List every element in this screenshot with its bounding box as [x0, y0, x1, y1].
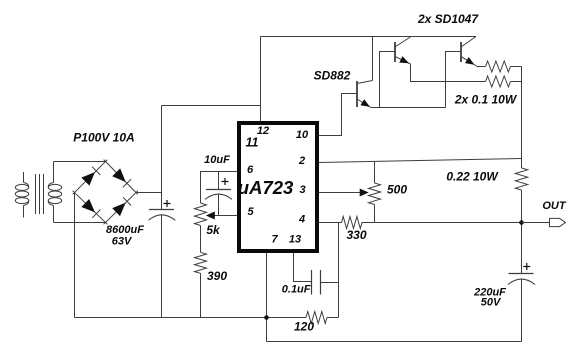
wire 330 to OUT node — [362, 222, 522, 224]
ground rail — [75, 317, 339, 319]
svg-text:50V: 50V — [481, 297, 502, 309]
transformer core — [36, 174, 44, 214]
resistor 390 — [195, 252, 207, 273]
junction dot — [264, 315, 269, 320]
diode D3 (left to bottom) — [81, 199, 95, 212]
svg-text:5: 5 — [247, 206, 254, 218]
wire pin 7 to ground — [266, 253, 268, 342]
diode D1 (left to top) — [81, 172, 95, 186]
capacitor 8600uF 63V — [149, 209, 174, 211]
wire pin 2 to current sense — [319, 159, 522, 163]
wire Q1 collector to rail — [372, 37, 374, 81]
wire DC+ to pin 12 column — [162, 105, 261, 107]
transformer secondary winding — [48, 162, 61, 223]
wire Q1 emitter bus — [371, 107, 446, 109]
potentiometer 5k — [195, 203, 207, 226]
V+ top rail — [261, 36, 477, 38]
resistor 120 — [306, 312, 327, 324]
wire pin 12 to V+ rail — [260, 37, 262, 122]
svg-text:6: 6 — [247, 164, 254, 176]
svg-text:120: 120 — [294, 320, 314, 334]
svg-text:7: 7 — [271, 234, 278, 246]
wire DC+ vertical — [161, 106, 163, 318]
svg-text:P100V 10A: P100V 10A — [73, 131, 134, 145]
svg-text:63V: 63V — [112, 236, 133, 248]
bridge rectifier diamond — [73, 160, 138, 225]
diode D4 (bottom to right) — [112, 203, 126, 217]
svg-text:0.1uF: 0.1uF — [282, 284, 311, 296]
node OUT junction — [519, 220, 524, 225]
svg-text:500: 500 — [387, 183, 407, 197]
transformer primary winding — [15, 172, 28, 218]
regulator U1 uA723 body — [239, 123, 317, 251]
wire 390 to ground rail — [200, 273, 202, 317]
capacitor 220uF 50V — [509, 273, 534, 275]
svg-text:5k: 5k — [206, 223, 221, 237]
resistor 0.1 10W upper — [486, 61, 511, 72]
svg-text:4: 4 — [298, 213, 305, 225]
svg-text:2x SD1047: 2x SD1047 — [417, 12, 479, 26]
wire secondary top to bridge — [54, 161, 106, 163]
resistor 330 — [342, 217, 363, 229]
svg-text:13: 13 — [289, 234, 301, 246]
svg-text:10: 10 — [296, 129, 309, 141]
transistor Q3 SD1047 — [446, 52, 462, 108]
wire secondary bottom to bridge — [54, 222, 106, 224]
svg-text:OUT: OUT — [542, 200, 567, 212]
wire pin 4 — [319, 222, 342, 224]
svg-text:SD882: SD882 — [314, 69, 351, 83]
svg-text:11: 11 — [246, 136, 259, 150]
wire feedback vertical — [338, 223, 340, 318]
svg-text:8600uF: 8600uF — [106, 224, 144, 236]
svg-text:0.22 10W: 0.22 10W — [446, 170, 499, 184]
svg-text:12: 12 — [257, 125, 269, 137]
output rail — [521, 67, 523, 342]
transistor Q2 SD1047 — [380, 52, 396, 108]
resistor 0.1 10W lower — [486, 76, 511, 87]
svg-text:330: 330 — [346, 228, 366, 242]
wire pin 3 wiper arrow — [319, 192, 362, 194]
transistor Q1 SD882 — [356, 81, 358, 107]
wire pin 10 to Q1 base — [319, 94, 357, 136]
OUT terminal — [550, 218, 566, 226]
svg-text:uA723: uA723 — [238, 177, 294, 198]
svg-text:2x 0.1 10W: 2x 0.1 10W — [454, 93, 518, 107]
capacitor 0.1uF — [311, 270, 313, 295]
bottom return wire — [267, 341, 522, 343]
diode D2 (top to right) — [112, 168, 126, 182]
potentiometer 500 — [374, 161, 376, 183]
wire pin 6 to divider — [201, 172, 238, 204]
svg-text:3: 3 — [299, 184, 305, 196]
svg-text:10uF: 10uF — [204, 154, 230, 166]
wire bridge right vertex to filter node — [136, 192, 162, 194]
wire pin 13 — [294, 253, 312, 282]
resistor 0.22 10W — [515, 168, 527, 190]
svg-text:2: 2 — [298, 155, 305, 167]
wire 5k to 390 — [200, 226, 202, 253]
svg-text:390: 390 — [207, 269, 227, 283]
wire bridge left vertex to ground rail — [74, 193, 76, 318]
